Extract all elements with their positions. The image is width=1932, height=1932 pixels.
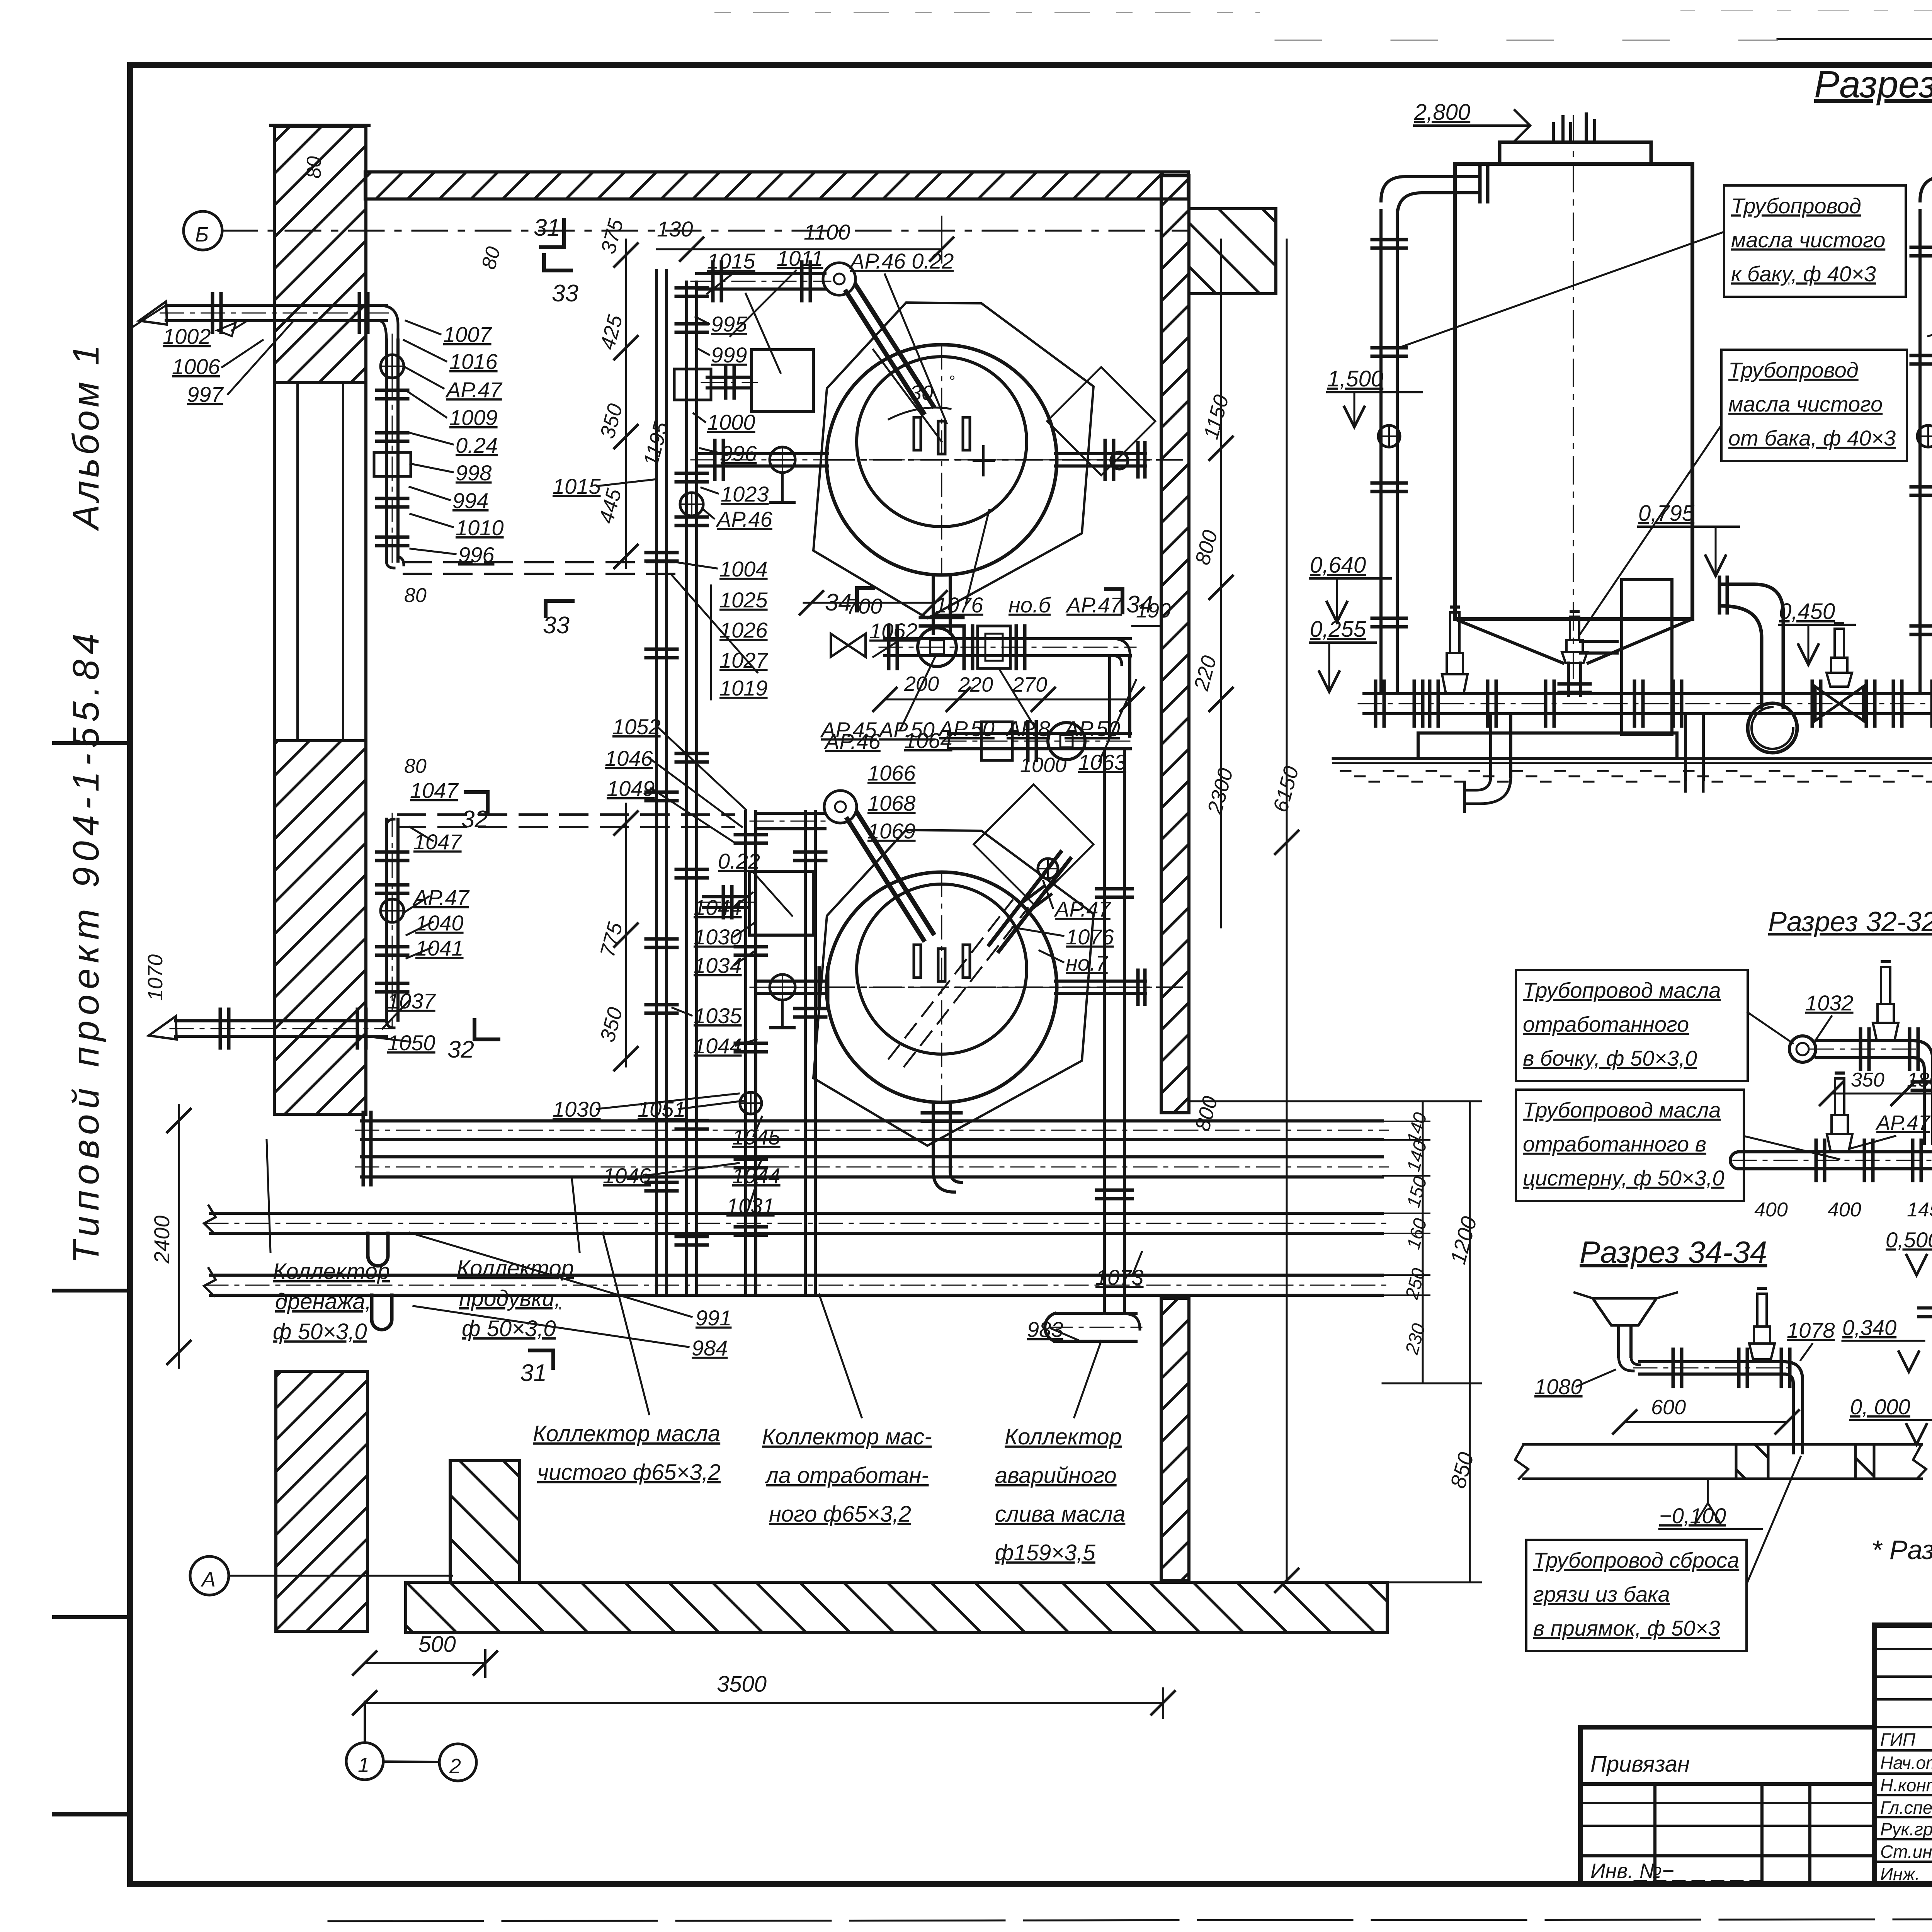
label 350 xyxy=(596,401,627,441)
floor hatch dashes xyxy=(1341,771,1932,782)
pipe: unit1 valve row horizontal xyxy=(879,639,1136,656)
section mark 33 mid xyxy=(543,601,573,639)
label 983 xyxy=(1027,1317,1078,1342)
wall: left column hatched upper part xyxy=(270,125,369,383)
svg-text:1066: 1066 xyxy=(867,761,916,785)
svg-text:Инв. №−: Инв. №− xyxy=(1590,1859,1674,1883)
svg-text:АР.47: АР.47 xyxy=(1875,1111,1931,1134)
label Инв. № xyxy=(1590,1859,1762,1883)
svg-text:1019: 1019 xyxy=(719,676,768,700)
label 140 b xyxy=(1403,1138,1431,1173)
flanges riser B1 xyxy=(735,835,766,843)
plan right dims 800 b xyxy=(1191,1094,1222,1134)
flanges riser A y1680 xyxy=(646,649,677,658)
callout: масла в цистерну xyxy=(1516,1090,1839,1201)
callout: масла чистого от бака xyxy=(1580,350,1907,634)
svg-text:Гл.спец.: Гл.спец. xyxy=(1880,1798,1932,1818)
svg-text:0.22: 0.22 xyxy=(718,849,760,873)
label 0,255 xyxy=(1310,617,1376,692)
row2 flange xyxy=(1028,722,1036,760)
label 1076 но.б АР.47 xyxy=(935,510,1123,617)
label 0.22 leader unit1 xyxy=(746,294,781,373)
label 0,640 xyxy=(1310,553,1391,622)
svg-text:ф 50×3,0: ф 50×3,0 xyxy=(273,1319,367,1344)
pump P1 circle xyxy=(1748,703,1797,753)
tank1 small cross xyxy=(974,446,994,475)
svg-text:996: 996 xyxy=(721,441,757,466)
svg-text:но.б: но.б xyxy=(1009,593,1052,617)
svg-text:1064: 1064 xyxy=(904,728,952,753)
label 1030 b xyxy=(553,1094,739,1121)
label stack 1025 xyxy=(719,588,768,612)
dim 350 180 xyxy=(1820,1069,1932,1105)
wall: left column hatched lower part xyxy=(274,741,366,1114)
pipe: unit2 axis horizontal xyxy=(750,981,833,993)
label 1010 xyxy=(410,514,504,540)
svg-text:к баку, ф 40×3: к баку, ф 40×3 xyxy=(1731,262,1876,286)
label АР.46 left xyxy=(704,507,773,531)
svg-text:грязи из бака: грязи из бака xyxy=(1533,1582,1670,1606)
plan right dims 800 xyxy=(1191,528,1222,568)
section mark 34 left xyxy=(825,588,873,616)
label 1041 xyxy=(406,936,464,960)
elbow top-left pipe to down xyxy=(379,305,398,340)
axis Б line xyxy=(222,230,1189,232)
svg-text:* Размеры для справок: * Размеры для справок xyxy=(1871,1535,1932,1565)
T2 standpipe valve xyxy=(1917,425,1932,447)
flange lower outside 1 xyxy=(220,1009,229,1048)
row flange 2 xyxy=(964,626,973,668)
label 1007 xyxy=(406,321,492,347)
tank2 slots xyxy=(914,945,970,981)
pipe break arrow left end 2 xyxy=(149,1016,177,1039)
svg-text:0,500: 0,500 xyxy=(1886,1228,1932,1252)
label но.7 xyxy=(1039,951,1109,975)
tank T1: top nozzles xyxy=(1553,114,1595,142)
svg-text:от бака, ф 40×3: от бака, ф 40×3 xyxy=(1728,426,1896,450)
label 1070 rot xyxy=(144,954,167,1001)
svg-text:Привязан: Привязан xyxy=(1590,1752,1690,1777)
svg-text:АР.46: АР.46 xyxy=(824,729,881,753)
svg-text:999: 999 xyxy=(711,343,747,367)
svg-text:Нач.отд·: Нач.отд· xyxy=(1880,1753,1932,1773)
label 775 xyxy=(596,920,628,959)
row31 tee T1 xyxy=(1634,681,1682,726)
svg-text:АР.47: АР.47 xyxy=(1054,897,1111,921)
valve small right axis xyxy=(1111,452,1128,469)
left margin tick bottom xyxy=(54,1812,130,1816)
svg-text:31: 31 xyxy=(534,214,560,241)
stack bracket xyxy=(710,585,712,699)
pipe: unit1 riser pair A2 xyxy=(687,282,697,1295)
wall: bottom band hatched xyxy=(406,1582,1387,1633)
wall: left column bottom piece xyxy=(276,1371,367,1631)
svg-text:ГИП: ГИП xyxy=(1880,1730,1916,1750)
label stack 1019 xyxy=(672,576,768,700)
tee box riser A xyxy=(674,369,711,400)
dim 130 top xyxy=(657,217,693,249)
flanges riser B2 xyxy=(735,947,766,955)
svg-text:Н.контр.: Н.контр. xyxy=(1880,1775,1932,1795)
label 1195 xyxy=(639,419,673,469)
label 230 xyxy=(1401,1321,1429,1357)
valve circle on outside riser xyxy=(381,355,404,378)
flange on outside riser a xyxy=(377,390,408,399)
svg-text:996: 996 xyxy=(458,543,495,567)
svg-text:0, 000: 0, 000 xyxy=(1850,1395,1910,1419)
plan right dims 6150 xyxy=(1269,764,1303,815)
flange top horizontal 1 xyxy=(713,262,721,301)
label 1002 xyxy=(163,321,247,349)
dim column 2 xyxy=(614,804,638,1070)
collector: clean oil pipe K3 xyxy=(205,1213,1388,1233)
pipe: unit1 axis horizontal into tank xyxy=(691,454,833,466)
label 1,500 s31 xyxy=(1327,366,1422,427)
label 1046 u2a xyxy=(605,746,742,827)
svg-text:0,450: 0,450 xyxy=(1779,599,1835,624)
wall: right column hatched lower xyxy=(1161,1298,1189,1580)
title Разрез 34-34 xyxy=(1580,1235,1767,1269)
tank T1: base block xyxy=(1418,733,1677,759)
label stack 1066 xyxy=(867,761,916,785)
tank 1 plan: hexagon outline xyxy=(813,303,1094,618)
svg-text:400: 400 xyxy=(1828,1199,1861,1221)
row flange 1 xyxy=(889,626,897,668)
svg-text:АР.47: АР.47 xyxy=(1065,593,1123,617)
svg-text:700: 700 xyxy=(846,594,882,618)
flanges riser A y1430 xyxy=(646,553,677,561)
equipment box unit1 (0.22) xyxy=(752,350,813,412)
valve circle axis unit1 xyxy=(770,447,795,502)
label 1009 xyxy=(406,390,498,430)
titleblock row Гл.спец. xyxy=(1880,1798,1932,1818)
floor line section31 xyxy=(1333,759,1932,763)
s32 tee xyxy=(1913,1140,1932,1180)
label 1035 xyxy=(672,1003,742,1028)
svg-text:1010: 1010 xyxy=(456,515,504,540)
flange lower outside 2 xyxy=(357,1009,366,1048)
titleblock row ГИП xyxy=(1880,1730,1932,1750)
svg-text:масла чистого: масла чистого xyxy=(1728,392,1883,416)
row flange 3 xyxy=(1016,626,1025,668)
svg-text:350: 350 xyxy=(1851,1069,1884,1091)
pipe: top-left wall penetration horizontal xyxy=(160,305,392,321)
svg-text:983: 983 xyxy=(1027,1317,1063,1342)
s32 valve АР.46 small xyxy=(1919,1283,1932,1323)
label 850 xyxy=(1446,1450,1478,1491)
label 2,800 xyxy=(1414,100,1530,141)
row2 bulb xyxy=(1048,723,1085,760)
pipe: tank2 bottom stub to collector xyxy=(922,1104,962,1192)
tank2 crosshair xyxy=(827,873,1059,1103)
plan right dims 2300 xyxy=(1203,766,1237,817)
flanges riser C2 xyxy=(795,1009,826,1017)
label 1200 xyxy=(1446,1214,1481,1267)
svg-text:998: 998 xyxy=(456,461,492,485)
svg-text:1027: 1027 xyxy=(719,648,768,672)
collector: blowdown pipe K2 xyxy=(355,1149,1388,1185)
svg-text:Альбом 1: Альбом 1 xyxy=(65,342,107,531)
svg-text:1062: 1062 xyxy=(869,619,918,643)
titleblock row Нач.отд· xyxy=(1880,1753,1932,1773)
svg-text:°: ° xyxy=(949,373,955,390)
note Размеры для справок xyxy=(1871,1535,1932,1565)
pipe: vertical outside riser upper xyxy=(386,334,398,567)
label 1015 left xyxy=(553,474,657,498)
label АР.50 АР.8 АР.50 xyxy=(938,668,1120,741)
plan dim vline b xyxy=(1275,240,1298,1592)
label АР.47 u2 xyxy=(1043,881,1111,921)
grid bubble 2 xyxy=(439,1744,476,1781)
riser flange y3080 xyxy=(1097,1190,1132,1199)
label 1030 a xyxy=(694,923,753,949)
valve АР.46 unit2 handwheel xyxy=(824,791,857,823)
svg-text:Инж.: Инж. xyxy=(1880,1864,1920,1884)
dimension 500 xyxy=(353,1632,497,1677)
svg-text:2,800: 2,800 xyxy=(1414,100,1470,125)
flange on outside riser c xyxy=(377,498,408,507)
flanges riser A y2600 xyxy=(646,1005,677,1013)
titleblock row Ст.инж. xyxy=(1880,1842,1932,1862)
left margin tick 3 xyxy=(54,1615,130,1619)
elbow outside riser bottom xyxy=(386,556,404,568)
row31 flange c xyxy=(1376,681,1932,726)
row31 flange a xyxy=(1414,681,1423,726)
label 0,340 xyxy=(1842,1315,1924,1372)
svg-text:но.7: но.7 xyxy=(1066,951,1109,975)
equipment box unit2 (0.22) xyxy=(750,871,813,935)
valve circle lower riser xyxy=(381,899,404,922)
label 350 u2 xyxy=(596,1005,627,1045)
svg-text:Коллектор: Коллектор xyxy=(273,1259,390,1284)
label 80 small a xyxy=(478,244,505,272)
wall: left column window part xyxy=(274,383,366,741)
label stack 1068 xyxy=(867,791,916,815)
s32 valve on upper run xyxy=(1861,962,1918,1069)
wall: right column hatched upper xyxy=(1161,176,1189,1113)
svg-text:слива масла: слива масла xyxy=(995,1502,1125,1527)
svg-text:1047: 1047 xyxy=(410,778,459,803)
tank 2 plan: outer circle xyxy=(827,872,1057,1102)
svg-text:997: 997 xyxy=(187,382,224,406)
tank T1: cone bottom xyxy=(1455,619,1692,663)
label 1000 u1 xyxy=(694,410,755,434)
svg-text:Коллектор мас-: Коллектор мас- xyxy=(762,1424,932,1449)
svg-text:1100: 1100 xyxy=(804,220,850,244)
svg-text:1011: 1011 xyxy=(777,246,823,270)
label АР.47 top xyxy=(405,367,503,402)
tee fitting to box unit1 xyxy=(701,367,757,398)
flange lower riser d xyxy=(377,983,408,992)
svg-text:Разрез 34-34: Разрез 34-34 xyxy=(1580,1235,1767,1269)
pipe: unit1 riser pair A1 xyxy=(656,270,667,1295)
tee fitting to box unit2 xyxy=(697,887,755,918)
callout: сброс грязи xyxy=(1526,1457,1801,1651)
flange pair on top-left pipe 2 xyxy=(359,294,368,332)
svg-text:ла отработан-: ла отработан- xyxy=(765,1463,929,1488)
dim 700 xyxy=(800,591,947,618)
svg-text:Трубопровод: Трубопровод xyxy=(1731,194,1861,218)
label 425 xyxy=(596,312,628,352)
label 1016 xyxy=(404,340,498,374)
section mark 31 top xyxy=(534,214,564,247)
pipe: T1 underfloor elbow drop xyxy=(1464,714,1511,811)
flanges riser B3 xyxy=(735,1043,766,1052)
svg-text:1004: 1004 xyxy=(719,557,768,581)
svg-text:1,500: 1,500 xyxy=(1327,366,1383,391)
flanges riser A y1340 xyxy=(676,517,707,526)
label АР.46 1064 xyxy=(824,728,952,753)
label 984 xyxy=(413,1306,728,1360)
collector: used oil pipe K4 xyxy=(205,1275,1388,1295)
label АР.45 АР.50 xyxy=(820,657,935,742)
svg-text:1016: 1016 xyxy=(449,349,498,374)
small bowtie valve left xyxy=(831,634,866,657)
svg-text:Трубопровод: Трубопровод xyxy=(1728,358,1859,382)
tank T1: bottom valve assembly xyxy=(1559,611,1617,696)
pipe: unit1 second valve row xyxy=(943,733,1136,749)
label 1044 b xyxy=(694,1034,757,1058)
pipe: long riser to collector (1073) xyxy=(1104,750,1124,1314)
pipe: dashed underfloor run to unit1 risers xyxy=(404,562,680,574)
dimension 2400 vertical xyxy=(150,1105,190,1368)
T2 standpipe flanges xyxy=(1911,247,1932,634)
elbow lower riser bottom xyxy=(386,1020,394,1028)
svg-text:АР.46: АР.46 xyxy=(716,507,773,531)
svg-text:Разрез 32-32: Разрез 32-32 xyxy=(1768,906,1932,937)
label 0,000 xyxy=(1850,1395,1932,1444)
row box valve xyxy=(978,626,1010,668)
tank T1: pedestal column xyxy=(1622,580,1672,734)
s32 flange up a xyxy=(1912,1082,1932,1090)
callout: масла в бочку xyxy=(1516,970,1793,1081)
svg-text:1023: 1023 xyxy=(721,482,769,506)
flanges riser B4 xyxy=(735,1159,766,1168)
svg-text:1073: 1073 xyxy=(1095,1265,1144,1289)
label 1073 xyxy=(1095,1252,1144,1289)
svg-text:31: 31 xyxy=(520,1360,547,1386)
axis Б bubble xyxy=(184,211,222,250)
pipe: T1 standpipe with top elbow xyxy=(1381,168,1488,692)
label 250 xyxy=(1401,1266,1429,1301)
label 1006 xyxy=(172,340,263,379)
pressure reducer АР after P1 xyxy=(1812,623,1875,726)
svg-text:130: 130 xyxy=(657,217,693,241)
svg-text:ного ф65×3,2: ного ф65×3,2 xyxy=(769,1502,911,1527)
svg-text:1002: 1002 xyxy=(163,324,211,349)
label АР.46 0.22 top xyxy=(849,249,954,423)
grid bubble connector xyxy=(365,1702,439,1762)
label stack 1026 xyxy=(719,618,768,642)
dim 1000 1063 xyxy=(1020,680,1136,777)
svg-text:80: 80 xyxy=(404,755,427,777)
label 1046 b xyxy=(603,1163,739,1188)
label 1052 xyxy=(612,714,746,810)
dim row 200 220 270 xyxy=(873,672,1144,711)
svg-text:1025: 1025 xyxy=(719,588,768,612)
sheet edge top faint line xyxy=(1275,39,1932,40)
svg-text:984: 984 xyxy=(692,1336,728,1360)
label 1050 s32 xyxy=(1928,1020,1932,1051)
label 80 rotated top xyxy=(303,156,325,179)
label -0,100 xyxy=(1659,1480,1762,1529)
tank1 slots xyxy=(914,417,970,454)
svg-text:1015: 1015 xyxy=(707,249,755,273)
section mark 32 lower xyxy=(447,1020,498,1063)
pipe: left drain elbows to collectors xyxy=(368,1233,392,1330)
pipe: diagonal from AR46 into tank1 xyxy=(846,285,933,413)
label Привязан xyxy=(1590,1752,1690,1777)
pipe: s32 upper run xyxy=(1789,1036,1932,1144)
label 1047 b xyxy=(410,827,462,854)
svg-text:220: 220 xyxy=(958,673,993,696)
label Коллектор продувки xyxy=(457,1179,580,1341)
label 445 xyxy=(595,486,626,526)
flanges riser A y760 xyxy=(676,288,707,296)
valve circle riser A xyxy=(680,493,703,516)
label 1049 xyxy=(607,776,734,842)
label 1015 top xyxy=(707,249,755,294)
stamp: Альбом 1 (vertical) xyxy=(65,342,107,531)
diamond marker unit2 xyxy=(974,784,1094,904)
svg-text:Рук.гр.: Рук.гр. xyxy=(1880,1819,1932,1839)
label 150 c xyxy=(1403,1174,1431,1209)
s34 funnel xyxy=(1575,1293,1677,1325)
section mark 34 right xyxy=(1106,589,1153,618)
T1 standpipe valve xyxy=(1378,425,1400,447)
svg-text:1080: 1080 xyxy=(1534,1374,1583,1399)
svg-text:1070: 1070 xyxy=(144,954,167,1001)
svg-text:цистерну, ф 50×3,0: цистерну, ф 50×3,0 xyxy=(1523,1166,1724,1190)
elbow 983 to riser xyxy=(1124,1314,1140,1329)
label 1050 low xyxy=(359,1031,435,1055)
svg-text:1009: 1009 xyxy=(449,405,498,430)
tank 1 plan: inner circle xyxy=(857,357,1027,527)
pipe: lower outside riser xyxy=(386,813,398,1026)
label 996 u1 xyxy=(700,441,757,466)
flange axis2 1 xyxy=(819,968,828,1007)
svg-text:0.24: 0.24 xyxy=(456,433,498,457)
svg-text:270: 270 xyxy=(1012,673,1047,696)
pipe: T1 drop pipe 2 xyxy=(1685,714,1703,796)
callout: масла чистого к баку xyxy=(1399,185,1906,348)
label 1044 c xyxy=(732,1159,781,1188)
tank T1: lid rim xyxy=(1500,142,1651,164)
svg-text:Трубопровод масла: Трубопровод масла xyxy=(1523,1098,1721,1122)
svg-text:Разрез 31-31: Разрез 31-31 xyxy=(1814,63,1932,105)
svg-text:3500: 3500 xyxy=(717,1672,767,1697)
break mark K4 xyxy=(204,1268,216,1296)
dim 190 xyxy=(1132,599,1171,626)
scan specks top edge xyxy=(715,11,1932,12)
flanges riser B5 xyxy=(735,1227,766,1235)
svg-text:1076: 1076 xyxy=(1066,925,1114,949)
sheet bottom edge faint xyxy=(328,1918,1932,1921)
label 995 xyxy=(696,312,747,336)
svg-text:чистого ф65×3,2: чистого ф65×3,2 xyxy=(537,1460,721,1485)
dimension 3500 xyxy=(353,1672,1175,1718)
label 1031 xyxy=(726,1183,775,1218)
label 1034 xyxy=(694,951,754,978)
collector: emergency drain 983 pipe xyxy=(1045,1313,1142,1341)
label Коллектор масла чистого xyxy=(533,1233,721,1485)
oblique nozzle on tank2 xyxy=(989,852,1070,951)
tank T1: center axis line xyxy=(1573,116,1574,680)
plan right dims 1150 xyxy=(1199,386,1233,448)
label 1078 xyxy=(1787,1318,1835,1360)
svg-text:32: 32 xyxy=(461,806,488,833)
label 1040 xyxy=(406,911,464,935)
